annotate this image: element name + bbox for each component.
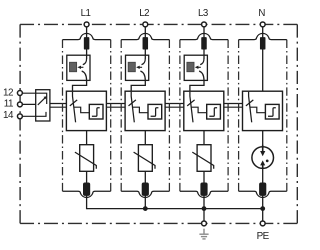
varistor body L3 [197,145,211,172]
channel L3 bottom edge with exit dome [180,191,228,197]
disconnect switch blade N [249,92,252,123]
svg-text:PE: PE [257,231,270,242]
earth terminal [202,221,207,226]
enclosure border bottom edge [20,222,297,224]
terminal 11 [17,102,22,107]
wire terminal L1 to fuse [86,24,88,38]
triggered arrester control box L3 [184,91,224,130]
channel L3 top edge with entry dome [180,33,228,39]
earth symbol bar 1 [199,233,208,235]
thermal trip tick L3 [187,100,194,106]
contact 14 stub [36,112,46,116]
trigger link upper line [165,103,184,105]
earth symbol bar 2 [201,236,207,238]
upper contact horn L2 [142,58,146,64]
wire terminal to PE bus L2 [144,195,146,209]
channel N right partition [286,40,288,192]
triggered arrester control box N [243,91,283,130]
channel L1 bottom edge with exit dome [63,191,111,197]
channel N bottom edge with exit dome [239,191,287,197]
svg-text:14: 14 [3,110,14,121]
trigger connection step line L2 [133,107,148,113]
svg-text:L2: L2 [139,8,149,19]
varistor characteristic stroke L1 [75,152,96,169]
terminal N [260,22,265,27]
lower contact horn L2 [140,71,145,80]
trigger link bus lower line [50,106,67,108]
step function symbol L1 [92,108,100,117]
spark gap lower electrode N [262,165,264,169]
wire terminal L3 to fuse [203,24,205,38]
earth symbol bar 3 [202,238,205,240]
wire monitoring box to jog L3 [190,80,204,91]
wire trigger box to arrester L2 [144,131,146,145]
wire terminal to PE bus L3 [203,195,205,209]
lower contact horn L1 [82,71,87,80]
channel L2 bottom edge with exit dome [121,191,169,197]
wire terminal L2 to fuse [144,24,146,38]
spark gap trigger dot N [266,160,269,163]
varistor characteristic stroke L3 [192,152,213,169]
terminal L3 [202,22,207,27]
enclosure border top edge [20,23,297,25]
step function symbol L2 [151,108,159,117]
wire varistor to terminal L2 [144,171,146,186]
wire trigger box to arrester L1 [86,131,88,145]
spark gap upper electrode N [262,145,264,151]
wire varistor to terminal L1 [86,171,88,186]
step function symbol L3 [209,108,217,117]
thermal trip tick N [246,100,253,106]
wire trigger box to arrester N [262,131,264,145]
wire fuse to monitoring box L3 [203,49,205,58]
trigger link upper line [224,103,243,105]
status indicator flag L3 [187,62,194,71]
wire terminal to PE bus L1 [86,195,88,209]
trigger link lower line [106,106,125,108]
upper contact horn L3 [200,58,204,64]
wire terminal N to fuse [262,24,264,38]
status indicator flag L1 [70,62,77,71]
remote contact box [36,90,50,121]
trigger circuit box L1 [89,104,103,119]
disconnect fuse element L3 [202,38,207,50]
channel L2 right partition [168,40,170,192]
terminal 12 [17,91,22,96]
disconnect switch blade L1 [73,92,76,123]
disconnect fuse element L1 [84,38,89,50]
triggered arrester control box L2 [125,91,165,130]
terminal L1 [84,22,89,27]
svg-text:L3: L3 [198,8,208,19]
channel L2 top edge with entry dome [121,33,169,39]
junction node L2 [143,206,148,211]
wire monitoring box to jog L2 [131,80,145,91]
trigger circuit box L3 [207,104,221,119]
varistor characteristic stroke L2 [134,152,155,169]
wire terminal to PE bus N [262,195,264,209]
contact 12 bar [36,93,47,104]
trigger connection step line N [250,107,265,113]
disconnect switch blade L3 [190,92,193,123]
channel L2 left partition [120,40,122,192]
svg-text:N: N [258,8,265,19]
junction node L3 [202,206,207,211]
trigger circuit box N [265,104,279,119]
svg-text:12: 12 [3,88,13,99]
bottom terminal block L3 [201,183,207,195]
enclosure border right edge [296,24,298,223]
disconnect fuse element N [260,38,265,50]
varistor body L1 [80,145,94,172]
trigger circuit box L2 [148,104,162,119]
wire fuse to monitoring box L1 [86,49,88,58]
channel L3 left partition [179,40,181,192]
indicator arrow L1 [80,66,83,68]
monitoring disconnector box L1 [67,55,90,80]
trigger link lower line [165,106,184,108]
channel L3 right partition [227,40,229,192]
trigger link upper line [106,103,125,105]
changeover blade [38,98,45,105]
indicator arrow L3 [197,66,200,68]
PE bus wire [87,208,263,210]
terminal L2 [143,22,148,27]
channel L1 left partition [62,40,64,192]
wire spark gap to terminal N [262,168,264,186]
wire trigger box to arrester L3 [203,131,205,145]
bottom terminal block L2 [142,183,148,195]
wire contact 12 [20,92,36,94]
wire contact 14 [20,115,36,117]
upper contact horn L1 [83,58,87,64]
trigger link bus upper line [50,103,67,105]
bottom terminal block L1 [84,183,90,195]
trigger link lower line [224,106,243,108]
channel N top edge with entry dome [239,33,287,39]
thermal trip tick L1 [70,100,77,106]
trigger connection step line L3 [191,107,206,113]
svg-text:11: 11 [4,98,14,109]
monitoring disconnector box L3 [184,55,207,80]
wire varistor to terminal L3 [203,171,205,186]
status indicator flag L2 [128,62,135,71]
earth symbol stem [203,229,205,235]
trigger connection step line L1 [74,107,89,113]
wire contact 11 [20,103,36,105]
indicator arrow L2 [139,66,142,68]
enclosure border left edge [19,24,21,223]
spark gap body N [252,147,274,169]
varistor body L2 [138,145,152,172]
monitoring disconnector box L2 [126,55,149,80]
wire bus to PE [262,209,264,221]
disconnect switch blade L2 [131,92,134,123]
lower contact horn L3 [199,71,204,80]
wire bus to earth [203,209,205,221]
PE terminal [260,221,265,226]
disconnect fuse element L2 [143,38,148,50]
wire monitoring box to jog L1 [73,80,87,91]
svg-text:L1: L1 [81,8,91,19]
thermal trip tick L2 [129,100,136,106]
wire fuse to trigger box N [262,49,264,91]
triggered arrester control box L1 [66,91,106,130]
wire fuse to monitoring box L2 [144,49,146,58]
terminal 14 [17,114,22,119]
channel N left partition [238,40,240,192]
channel L1 top edge with entry dome [63,33,111,39]
step function symbol N [268,108,276,117]
junction node N [260,206,265,211]
channel L1 right partition [110,40,112,192]
bottom terminal block N [260,183,266,195]
